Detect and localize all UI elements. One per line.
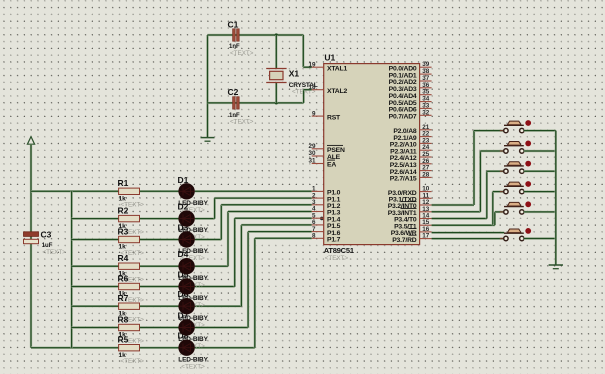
wire C1 top row (208, 34, 304, 36)
wire LED8 horizontal (195, 347, 255, 349)
wire resistor lead to LED row 4 (140, 265, 179, 267)
chip U1 AT89C51 body (324, 64, 420, 245)
wire stub to resistor row 5 (72, 285, 119, 287)
wire resistor lead to LED row 8 (140, 347, 179, 349)
svg-text:<TEXT>: <TEXT> (181, 363, 205, 370)
svg-text:9: 9 (312, 110, 316, 117)
wire resistor lead to LED row 1 (140, 190, 179, 192)
ground symbol right (549, 264, 563, 266)
wire LED8 vertical riser (254, 238, 256, 347)
wire resistor lead to LED row 7 (140, 326, 179, 328)
LED D7 (178, 319, 194, 335)
pin 25 P2.4/A12 (420, 156, 432, 158)
wire crystal top lead (275, 35, 277, 69)
wire LED2 horizontal (195, 217, 215, 219)
wire to button 3 terminal (487, 170, 504, 172)
svg-text:R5: R5 (118, 335, 129, 345)
wire resistor lead to LED row 2 (140, 217, 179, 219)
wire riser to button 4 (492, 192, 494, 226)
button SW3 (500, 170, 504, 172)
svg-text:<TEXT>: <TEXT> (121, 358, 145, 365)
pin 32 P0.7/AD7 (420, 114, 432, 116)
resistor R8 (119, 324, 140, 330)
svg-text:D1: D1 (178, 175, 189, 185)
wire rail2 vertical (70, 191, 72, 347)
pin 35 P0.4/AD4 (420, 94, 432, 96)
svg-text:P1.7: P1.7 (327, 237, 341, 244)
node crystal top junction (275, 33, 278, 36)
svg-text:AT89C51: AT89C51 (324, 246, 354, 255)
pin 18 XTAL2 (312, 89, 324, 91)
wire pin14 horizontal (432, 217, 487, 219)
wire to XTAL2 pin 18 (304, 88, 312, 90)
svg-text:C2: C2 (228, 87, 239, 97)
svg-text:C1: C1 (228, 19, 239, 29)
wire LED2 vertical riser (213, 198, 215, 219)
svg-text:R7: R7 (118, 293, 129, 303)
capacitor C2 (233, 97, 236, 109)
power arrow VCC (27, 137, 34, 145)
pin 36 P0.3/AD3 (420, 87, 432, 89)
marker button 5 (525, 201, 531, 207)
marker button 4 (525, 181, 531, 187)
wire button5 horizontal (495, 211, 504, 213)
svg-text:EA: EA (327, 162, 336, 169)
wire crystal bottom lead (275, 83, 277, 103)
svg-text:<TEXT>: <TEXT> (230, 119, 254, 126)
LED D4 (178, 258, 194, 274)
pin 14 P3.4/T0 (420, 218, 432, 220)
pin 7 P1.6 (312, 231, 324, 233)
wire resistor lead to LED row 6 (140, 305, 179, 307)
pin 29 PSEN (312, 148, 324, 150)
wire xtal2 riser (302, 90, 304, 103)
wire to button 2 terminal (480, 150, 503, 152)
wire button 6 to ground rail (524, 237, 556, 239)
svg-text:R2: R2 (118, 205, 129, 215)
resistor R3 (119, 236, 140, 242)
resistor R6 (119, 283, 140, 289)
svg-text:P0.7/AD7: P0.7/AD7 (389, 114, 417, 121)
svg-text:<TEXT>: <TEXT> (42, 249, 66, 256)
svg-text:XTAL2: XTAL2 (327, 88, 347, 95)
wire stub to resistor row 6 (72, 305, 119, 307)
ground symbol under crystal rail (201, 137, 215, 139)
wire rail xtal-left vertical (206, 35, 208, 137)
pin 3 P1.2 (312, 204, 324, 206)
svg-text:<TEXT>: <TEXT> (325, 255, 349, 262)
wire R1 row from rail1 (31, 190, 119, 192)
wire LED7 horizontal (195, 326, 248, 328)
wire to pin 2 (215, 197, 312, 199)
pin 26 P2.5/A13 (420, 163, 432, 165)
wire LED3 horizontal (195, 238, 222, 240)
pin 17 P3.7/RD (420, 238, 432, 240)
wire C2 bottom row (208, 102, 304, 104)
pin 38 P0.1/AD1 (420, 73, 432, 75)
wire button5 jog vertical (494, 212, 496, 225)
wire LED6 vertical riser (240, 225, 242, 306)
wire pin17 to button6 (432, 237, 504, 239)
wire LED4 vertical riser (227, 212, 229, 267)
pin 1 P1.0 (312, 190, 324, 192)
wire rail1 vertical (30, 144, 32, 348)
capacitor C1 (233, 29, 236, 41)
wire to button 1 terminal (474, 129, 504, 131)
pin 24 P2.3/A11 (420, 149, 432, 151)
LED D5 (178, 278, 194, 294)
wire riser to button 1 (473, 131, 475, 205)
wire to pin 4 (228, 210, 312, 212)
svg-text:D4: D4 (178, 249, 189, 259)
pin 23 P2.2/A10 (420, 142, 432, 144)
svg-text:R3: R3 (118, 226, 129, 236)
wire to pin 3 (221, 204, 311, 206)
wire stub to resistor row 7 (72, 326, 119, 328)
wire LED1 to pin1 (195, 190, 312, 192)
resistor R7 (119, 303, 140, 309)
wire to pin 8 (255, 237, 312, 239)
pin 28 P2.7/A15 (420, 176, 432, 178)
node junction near pin5 (320, 217, 324, 221)
button SW4 (500, 191, 504, 193)
wire LED5 horizontal (195, 285, 235, 287)
pin 8 P1.7 (312, 237, 324, 239)
LED D6 (178, 298, 194, 314)
pin 10 P3.0/RXD (420, 191, 432, 193)
wire riser to button 3 (486, 171, 488, 218)
svg-text:8: 8 (312, 233, 316, 240)
pin 31 EA (312, 163, 324, 165)
wire ground rail vertical (555, 131, 557, 265)
wire LED7 vertical riser (247, 232, 249, 328)
svg-text:LED-BIBY: LED-BIBY (178, 356, 208, 363)
wire resistor lead to LED row 3 (140, 238, 179, 240)
wire pin12 horizontal (432, 204, 474, 206)
LED D2 (178, 210, 194, 226)
svg-text:31: 31 (308, 158, 316, 165)
wire to pin 5 (235, 217, 312, 219)
pin 37 P0.2/AD2 (420, 80, 432, 82)
wire to pin 7 (248, 230, 312, 232)
svg-text:PSEN: PSEN (327, 147, 345, 154)
pin 30 ALE (312, 155, 324, 157)
wire resistor lead to LED row 5 (140, 285, 179, 287)
pin 13 P3.3/INT1 (420, 211, 432, 213)
svg-text:C3: C3 (41, 230, 52, 240)
pin 15 P3.5/T1 (420, 224, 432, 226)
svg-text:D2: D2 (178, 201, 189, 211)
svg-text:XTAL1: XTAL1 (327, 65, 347, 72)
resistor R5 (119, 345, 140, 351)
button SW1 (500, 130, 504, 132)
svg-text:P3.7/RD: P3.7/RD (392, 237, 417, 244)
resistor R2 (119, 215, 140, 221)
wire pin15 horizontal (432, 224, 493, 226)
pin 6 P1.5 (312, 224, 324, 226)
resistor R4 (119, 263, 140, 269)
LED D3 (178, 231, 194, 247)
pin 5 P1.4 (312, 217, 324, 219)
wire button 5 to ground rail (524, 211, 556, 213)
svg-text:R8: R8 (118, 314, 129, 324)
LED D1 (178, 183, 194, 199)
button SW6 (500, 238, 504, 240)
svg-text:30: 30 (308, 150, 316, 157)
button SW2 (500, 150, 504, 152)
pin 11 P3.1/TXD (420, 197, 432, 199)
svg-text:17: 17 (422, 233, 430, 240)
marker button 6 (525, 228, 531, 234)
pin 9 RST (312, 115, 324, 117)
marker button 3 (525, 161, 531, 167)
pin 21 P2.0/A8 (420, 129, 432, 131)
wire button 2 to ground rail (524, 150, 556, 152)
button SW5 (500, 211, 504, 213)
resistor R1 (119, 188, 140, 194)
svg-text:29: 29 (308, 143, 316, 150)
wire stub to resistor row 2 (72, 217, 119, 219)
svg-text:<TEXT>: <TEXT> (230, 50, 254, 57)
svg-text:32: 32 (422, 109, 430, 116)
node crystal bottom junction (275, 101, 278, 104)
pin 12 P3.2/INT0 (420, 204, 432, 206)
marker button 2 (525, 141, 531, 147)
wire LED5 vertical riser (233, 218, 235, 286)
capacitor C3 (24, 232, 39, 237)
svg-text:P2.7/A15: P2.7/A15 (390, 176, 417, 183)
wire pin15 extension (493, 224, 495, 226)
wire stub to resistor row 3 (72, 238, 119, 240)
pin 27 P2.6/A14 (420, 170, 432, 172)
svg-text:X1: X1 (289, 68, 300, 78)
pin 19 XTAL1 (312, 66, 324, 68)
wire riser to button 2 (479, 151, 481, 212)
svg-text:19: 19 (308, 61, 316, 68)
pin 34 P0.5/AD5 (420, 101, 432, 103)
wire LED3 vertical riser (220, 205, 222, 240)
crystal X1 (266, 68, 286, 70)
pin 22 P2.1/A9 (420, 136, 432, 138)
marker button 1 (525, 120, 531, 126)
pin 39 P0.0/AD0 (420, 66, 432, 68)
wire pin13 horizontal (432, 211, 481, 213)
wire button 4 to ground rail (524, 190, 556, 192)
wire LED4 horizontal (195, 265, 228, 267)
wire xtal1 riser (302, 35, 304, 67)
wire pin16 horizontal (432, 231, 505, 233)
wire LED6 horizontal (195, 305, 242, 307)
wire to XTAL1 pin 19 (303, 66, 311, 68)
svg-text:R4: R4 (118, 253, 129, 263)
svg-text:R1: R1 (118, 178, 129, 188)
pin 2 P1.1 (312, 197, 324, 199)
svg-text:R6: R6 (118, 273, 129, 283)
pin 4 P1.3 (312, 211, 324, 213)
pin 16 P3.6/WR (420, 231, 432, 233)
wire stub to resistor row 4 (72, 265, 119, 267)
wire button 3 to ground rail (524, 170, 556, 172)
svg-text:28: 28 (422, 171, 430, 178)
svg-text:RST: RST (327, 114, 341, 121)
wire to button 4 terminal (493, 190, 504, 192)
LED D8 (178, 340, 194, 356)
pin 33 P0.6/AD6 (420, 107, 432, 109)
wire bottom horizontal to R5 (31, 347, 119, 349)
wire button 1 to ground rail (524, 129, 556, 131)
wire to pin 6 (241, 224, 311, 226)
svg-text:18: 18 (308, 84, 316, 91)
svg-text:U1: U1 (324, 53, 335, 63)
